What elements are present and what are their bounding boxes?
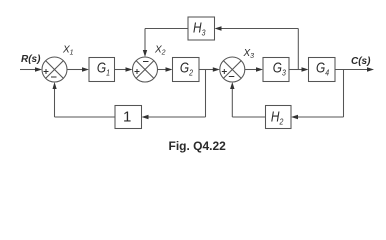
block G3 bbox=[263, 58, 289, 82]
wire takeoff after G3 up to H3 bbox=[215, 26, 299, 69]
svg-text:C(s): C(s) bbox=[351, 56, 371, 67]
plus sign at X3 left input bbox=[222, 69, 227, 74]
svg-text:X1: X1 bbox=[62, 45, 74, 57]
minus sign at X1 bottom input bbox=[51, 76, 57, 78]
summing junction X3 bbox=[220, 57, 245, 82]
block G2 bbox=[173, 58, 200, 82]
svg-text:G3: G3 bbox=[273, 59, 287, 77]
block 1 (unity feedback) bbox=[115, 106, 142, 129]
svg-text:1: 1 bbox=[123, 109, 131, 126]
summing junction X2 bbox=[133, 57, 158, 82]
minus sign at X2 top input bbox=[143, 61, 149, 63]
minus sign at X3 bottom input bbox=[229, 76, 235, 78]
wire H2 to X3 bottom bbox=[230, 82, 265, 117]
wire X3 to G3 bbox=[245, 67, 263, 71]
svg-text:H2: H2 bbox=[271, 108, 284, 126]
wire takeoff after G2 down to block 1 bbox=[142, 70, 206, 120]
svg-text:R(s): R(s) bbox=[21, 54, 41, 65]
svg-text:G4: G4 bbox=[316, 59, 330, 77]
wire block 1 to X1 bottom bbox=[53, 82, 116, 117]
wire G2 to X3 bbox=[199, 67, 220, 71]
plus sign at X2 left input bbox=[135, 69, 140, 74]
svg-text:X3: X3 bbox=[243, 48, 255, 60]
wire G3 to G4 bbox=[289, 67, 309, 71]
wire X2 to G2 bbox=[158, 67, 173, 71]
wire G4 to C(s) output bbox=[335, 67, 374, 71]
block G1 bbox=[89, 58, 115, 82]
block H3 bbox=[188, 17, 215, 40]
svg-text:Fig. Q4.22: Fig. Q4.22 bbox=[169, 139, 227, 153]
svg-text:G2: G2 bbox=[180, 59, 194, 77]
svg-text:G1: G1 bbox=[97, 59, 110, 77]
svg-text:H3: H3 bbox=[193, 19, 206, 37]
block G4 bbox=[309, 58, 336, 82]
wire H3 to X2 top bbox=[143, 29, 188, 58]
wire takeoff after G4 down to H2 bbox=[291, 70, 344, 120]
wire R(s) input bbox=[20, 67, 42, 71]
wire X1 to G1 bbox=[67, 67, 89, 71]
plus sign at X1 left input bbox=[44, 69, 49, 74]
summing junction X1 bbox=[42, 57, 67, 82]
svg-text:X2: X2 bbox=[154, 45, 166, 57]
wire G1 to X2 bbox=[115, 67, 133, 71]
block H2 bbox=[266, 106, 292, 129]
